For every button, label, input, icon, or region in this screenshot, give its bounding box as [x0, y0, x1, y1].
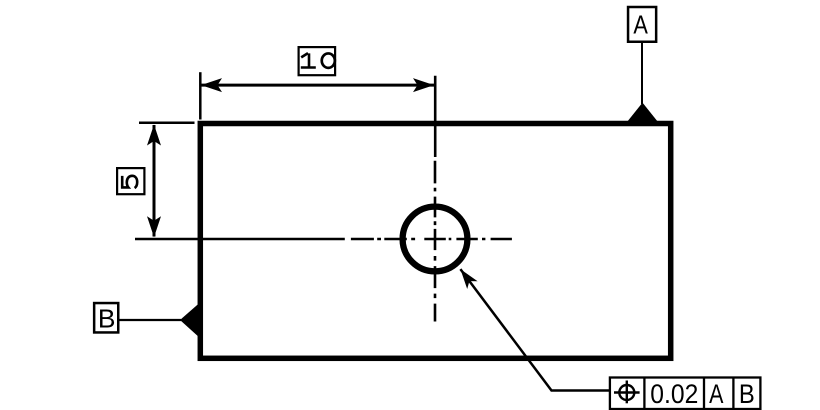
horizontal centerline solid extension (hole center, left to dim line) [135, 238, 345, 241]
extension line top (for dim 5) [139, 122, 195, 125]
dim 10 right arrowhead [413, 78, 434, 92]
datum A leader line [641, 41, 643, 105]
dim text 5 (rotated 90 ccw) [122, 176, 137, 188]
leader arrowhead at hole [460, 269, 477, 289]
extension line left (for dim 10) [199, 72, 202, 119]
vertical centerline dash-dot through hole [434, 161, 437, 322]
dim 10 left arrowhead [201, 78, 222, 92]
dim label box 10 [299, 47, 336, 75]
horizontal centerline dash-dot through hole [351, 238, 512, 241]
datum B triangle [180, 304, 198, 336]
svg-text:B: B [98, 306, 116, 334]
datum A label box [628, 7, 656, 42]
svg-text:A: A [709, 379, 723, 409]
feature control frame outer box [610, 378, 761, 410]
feature control frame divider 2 [703, 378, 705, 410]
dim text 10: digit 0 [322, 53, 335, 67]
part outline rectangle [200, 124, 670, 359]
leader line from feature control frame to hole [460, 269, 610, 390]
svg-text:0.02: 0.02 [650, 379, 698, 409]
datum B leader line [120, 319, 182, 321]
position symbol vertical line [626, 381, 628, 404]
dim text 10: digit 1 [301, 53, 316, 67]
feature control frame divider 1 [643, 378, 645, 410]
position symbol horizontal line [614, 391, 640, 393]
svg-text:B: B [739, 379, 755, 409]
dim 5 top arrowhead [147, 125, 161, 146]
svg-text:A: A [633, 12, 648, 40]
feature control frame divider 3 [732, 378, 734, 410]
datum A triangle [627, 103, 659, 123]
dim 5 bottom arrowhead [147, 216, 161, 237]
vertical centerline solid extension (hole center, up to dim line) [434, 76, 437, 157]
hole circle [403, 207, 468, 272]
datum B label box [94, 303, 118, 332]
dim label box 5 [117, 168, 144, 194]
dimension line 5 [153, 125, 156, 237]
dimension line 10 [201, 84, 434, 87]
position symbol circle [619, 385, 634, 400]
